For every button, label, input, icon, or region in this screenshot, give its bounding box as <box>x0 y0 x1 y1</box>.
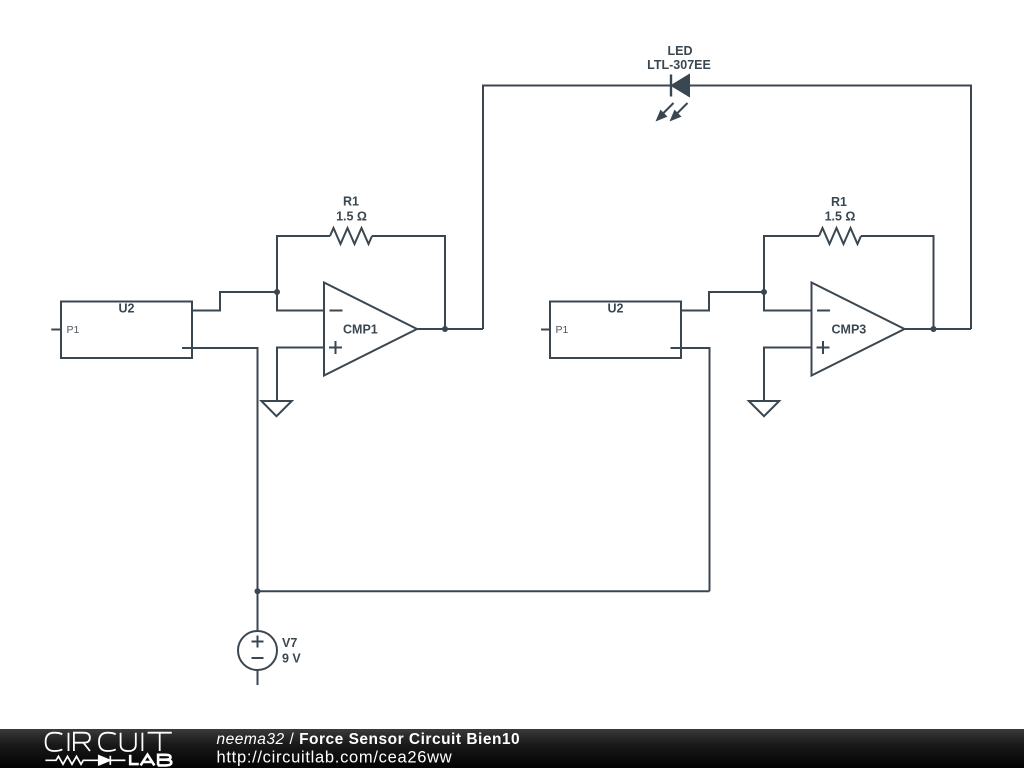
svg-text:V7: V7 <box>282 636 297 650</box>
svg-text:neema32 / Force Sensor Circuit: neema32 / Force Sensor Circuit Bien10 <box>217 731 521 748</box>
svg-text:P1: P1 <box>556 324 569 336</box>
svg-text:CMP3: CMP3 <box>832 323 867 337</box>
svg-text:1.5 Ω: 1.5 Ω <box>825 210 856 224</box>
svg-text:http://circuitlab.com/cea26ww: http://circuitlab.com/cea26ww <box>217 749 453 767</box>
svg-text:U2: U2 <box>119 302 135 316</box>
svg-text:LTL-307EE: LTL-307EE <box>647 58 711 72</box>
svg-text:LED: LED <box>668 44 693 58</box>
svg-text:1.5 Ω: 1.5 Ω <box>336 210 367 224</box>
svg-text:9 V: 9 V <box>282 652 301 666</box>
svg-text:U2: U2 <box>608 302 624 316</box>
svg-text:R1: R1 <box>343 195 359 209</box>
svg-text:R1: R1 <box>831 195 847 209</box>
svg-text:CMP1: CMP1 <box>343 323 378 337</box>
svg-text:P1: P1 <box>67 324 80 336</box>
